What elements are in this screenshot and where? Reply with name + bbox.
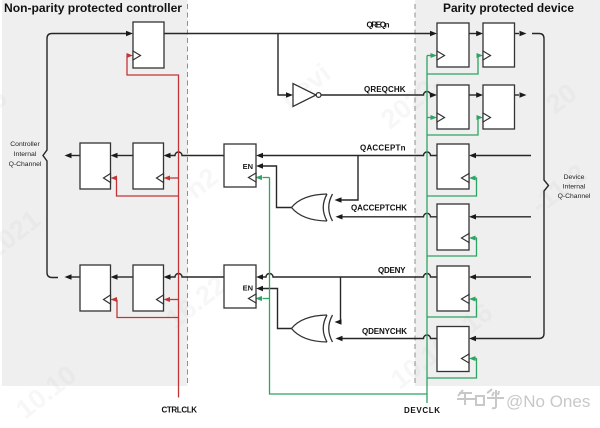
- svg-text:QACCEPTn: QACCEPTn: [360, 144, 406, 153]
- arrow device QREQCHK output: [520, 92, 527, 97]
- arrow QDENY into EN2: [256, 274, 263, 279]
- arrow XOR2 into EN2 enable: [256, 286, 263, 291]
- flip-flop device QREQ ff1: [437, 23, 469, 67]
- clock pin device QREQCHK ff2: [483, 113, 491, 122]
- wire controller QACCEPT ff1 output: [71, 155, 80, 157]
- wire green QACCEPTn ff clock loop: [427, 178, 477, 196]
- arrow green into EN2 clock: [255, 296, 262, 301]
- flip-flop controller QACCEPT sync ff2: [133, 143, 164, 189]
- arrow green into device QREQCHK ff2 clock: [477, 115, 484, 120]
- arrow into XOR1 bottom input: [336, 214, 343, 219]
- flip-flop device QREQ ff2: [483, 23, 515, 67]
- wire QACCEPTCHK from device ff to XOR1 bottom input: [342, 213, 437, 217]
- arrow green into QDENY ff clock: [469, 297, 476, 302]
- flip-flop controller QREQ launch: [133, 22, 164, 68]
- arrow into inverter input: [286, 92, 293, 97]
- wire red branch QDENY ff2 clock: [170, 299, 179, 301]
- wire controller QACCEPT ff2 to ff1: [117, 155, 133, 157]
- wire XOR1 output to EN1 enable input: [263, 166, 292, 208]
- clock pin EN1: [249, 173, 257, 182]
- arrow green into device QREQ ff2 clock: [477, 53, 484, 58]
- wire device QREQCHK ff1 to ff2: [469, 94, 477, 96]
- arrow green into QACCEPTCHK ff clock: [469, 236, 476, 241]
- svg-text:EN: EN: [243, 284, 253, 293]
- arrow red into QACCEPT ff1 clock: [111, 176, 118, 181]
- flip-flop device QREQCHK ff1: [437, 85, 469, 129]
- device domain background panel: [415, 0, 600, 386]
- arrow into device QACCEPTn ff: [469, 153, 476, 158]
- wire device internal Q-channel bus with brace notch to QDENYCHK ff: [476, 34, 549, 339]
- clock pin device QDENY ff: [462, 295, 470, 304]
- clock pin EN2: [249, 294, 257, 303]
- arrow into device QDENY ff: [469, 274, 476, 279]
- arrow into controller QDENY ff1: [111, 274, 118, 279]
- arrow red into controller QREQ ff clock: [127, 53, 134, 58]
- wire QREQCHK inverter output to device: [322, 92, 431, 95]
- wire green EN1 clock stub: [263, 177, 270, 179]
- arrow XOR1 into EN1 enable: [256, 163, 263, 168]
- arrow into device QDENYCHK ff: [469, 336, 476, 341]
- enable latch EN1: [224, 144, 256, 187]
- wire green device QREQ ff2 clock branch: [427, 56, 478, 75]
- inverter U1: [293, 84, 321, 107]
- wire green device QREQCHK ff2 clock branch: [427, 118, 478, 136]
- svg-text:EN: EN: [243, 162, 253, 171]
- XOR gate X1 (mirrored): [292, 194, 333, 221]
- DEVCLK green clock tree: [263, 56, 479, 404]
- svg-text:QDENYCHK: QDENYCHK: [362, 327, 407, 336]
- CTRLCLK red clock tree: [117, 56, 179, 398]
- wire QDENY junction down to XOR2 top input: [340, 277, 342, 322]
- arrow into device QACCEPTCHK ff: [469, 214, 476, 219]
- svg-text:Device: Device: [564, 174, 585, 181]
- clock pin device QREQ ff1: [437, 51, 445, 60]
- clock pin controller QREQ ff: [133, 51, 141, 60]
- clock pin device QACCEPTCHK ff: [462, 234, 470, 243]
- wire green QACCEPTCHK ff clock loop: [427, 238, 477, 256]
- label: Controller Internal Q-Channel: [9, 141, 42, 168]
- arrow green into QACCEPTn ff clock: [469, 176, 476, 181]
- svg-text:QREQCHK: QREQCHK: [364, 85, 406, 94]
- clock pin device QREQCHK ff1: [437, 113, 445, 122]
- arrow controller QACCEPT output: [65, 153, 72, 158]
- arrow into controller QACCEPT ff1: [111, 153, 118, 158]
- wire QREQn tap to inverter: [278, 34, 286, 96]
- arrow red into QDENY ff2 clock: [164, 297, 171, 302]
- label: Device Internal Q-Channel: [558, 174, 591, 200]
- arrow into controller QREQ ff: [126, 31, 133, 36]
- svg-text:Q-Channel: Q-Channel: [558, 193, 591, 200]
- wire green device QREQ ff1 clock stub: [427, 55, 431, 57]
- wire red branch QACCEPT ff2 clock: [170, 177, 179, 179]
- svg-text:Non-parity protected controlle: Non-parity protected controller: [4, 1, 182, 15]
- clock pin controller QACCEPT ff2: [157, 174, 164, 183]
- arrow controller QDENY output: [65, 274, 72, 279]
- wire XOR2 output to EN2 enable input: [263, 289, 292, 329]
- wire green devclk bottom run to EN blocks: [270, 178, 428, 395]
- flip-flop device QDENY launch: [437, 266, 469, 311]
- wire QACCEPTn from device ff to EN1: [263, 152, 438, 156]
- arrow QACCEPTn into EN1: [256, 153, 263, 158]
- wire green EN2 clock stub: [263, 298, 270, 300]
- svg-text:QREQn: QREQn: [367, 21, 390, 30]
- arrow into XOR1 top input: [335, 197, 342, 202]
- flip-flop device QDENYCHK launch: [437, 327, 469, 372]
- flip-flop controller QDENY sync ff2: [133, 265, 164, 311]
- arrow red into QACCEPT ff2 clock: [164, 176, 171, 181]
- wire green devclk main vertical: [426, 56, 428, 404]
- flip-flop controller QACCEPT sync ff1: [80, 143, 111, 189]
- arrow EN2 output into controller ff2: [164, 274, 171, 279]
- svg-text:QACCEPTCHK: QACCEPTCHK: [351, 204, 407, 213]
- flip-flop device QREQCHK ff2: [483, 85, 515, 129]
- enable latch EN2: [224, 265, 256, 308]
- wire QDENYCHK from device ff to XOR2 bottom input: [342, 335, 437, 339]
- clock pin controller QDENY ff2: [157, 295, 164, 304]
- svg-text:DEVCLK: DEVCLK: [404, 406, 440, 415]
- XOR gate X2 (mirrored): [292, 315, 333, 342]
- arrow green into QDENYCHK ff clock: [469, 356, 476, 361]
- wire EN2 output to controller sync ff: [170, 274, 224, 278]
- wire QDENY from device ff to EN2: [263, 274, 438, 278]
- arrow into XOR2 top input: [335, 319, 342, 324]
- wire red ctrlclk main vertical: [127, 56, 179, 398]
- wire QREQn from controller FF to device: [164, 33, 430, 35]
- clock pin device QACCEPTn ff: [462, 174, 470, 183]
- flip-flop device QACCEPTCHK launch: [437, 204, 469, 250]
- svg-text:Q-Channel: Q-Channel: [9, 161, 42, 168]
- flip-flop controller QDENY sync ff1: [80, 265, 111, 311]
- controller/device boundary dashed line (device side): [414, 4, 416, 386]
- svg-text:Controller: Controller: [10, 141, 40, 148]
- wire controller QDENY ff1 output: [71, 276, 80, 278]
- arrow into device QREQCHK ff2: [476, 92, 483, 97]
- wire red loop QACCEPT ff1 clock: [117, 178, 179, 196]
- wire device QREQ ff2 output: [515, 33, 520, 35]
- svg-text:Internal: Internal: [14, 151, 37, 158]
- wire device QACCEPTn ff input: [475, 155, 531, 157]
- clock pin device QDENYCHK ff: [462, 354, 470, 363]
- svg-text:@No Ones: @No Ones: [506, 392, 590, 411]
- wire controller QDENY ff2 to ff1: [117, 276, 133, 278]
- wire EN1 output to controller sync ff: [170, 152, 224, 156]
- arrow into device QREQ ff2: [476, 31, 483, 36]
- arrow green into device QREQ ff1 clock: [431, 53, 438, 58]
- arrow green into device QREQCHK ff1 clock: [431, 115, 438, 120]
- wire green QDENY ff clock loop: [427, 299, 477, 317]
- svg-text:CTRLCLK: CTRLCLK: [162, 406, 198, 415]
- clock pin controller QACCEPT ff1: [104, 174, 111, 183]
- arrow red into QDENY ff1 clock: [111, 297, 118, 302]
- svg-text:QDENY: QDENY: [378, 266, 406, 275]
- wire device QREQ ff1 to ff2: [469, 33, 477, 35]
- arrow device QREQ output: [520, 31, 527, 36]
- svg-text:Internal: Internal: [563, 184, 586, 191]
- flip-flop device QACCEPTn launch: [437, 144, 469, 189]
- watermark zhihu logo and handle: [457, 389, 504, 408]
- svg-text:Parity protected device: Parity protected device: [443, 1, 574, 15]
- wire device QACCEPTCHK ff input: [475, 216, 531, 218]
- signal labels: [162, 21, 441, 416]
- clock pin controller QDENY ff1: [104, 295, 111, 304]
- arrow green into EN1 clock: [255, 175, 262, 180]
- arrow EN1 output into controller ff2: [164, 153, 171, 158]
- clock pin device QREQ ff2: [483, 51, 491, 60]
- arrow into device QREQCHK ff1: [430, 92, 437, 97]
- wire controller Q-channel bus with brace notch: [43, 34, 127, 278]
- wire device QREQCHK ff2 output: [515, 94, 520, 96]
- wire green device QREQCHK ff1 clock stub: [427, 117, 431, 119]
- arrow into XOR2 bottom input: [336, 336, 343, 341]
- arrow into device QREQ ff1: [430, 31, 437, 36]
- controller domain background panel: [2, 0, 188, 386]
- wire green QDENYCHK ff clock loop: [427, 359, 477, 379]
- wire device QDENY ff input: [475, 276, 531, 278]
- wire QACCEPTn junction down to XOR1 top input: [341, 156, 358, 201]
- controller/device boundary dashed line (controller side): [187, 4, 189, 386]
- wire red loop QDENY ff1 clock: [117, 300, 179, 318]
